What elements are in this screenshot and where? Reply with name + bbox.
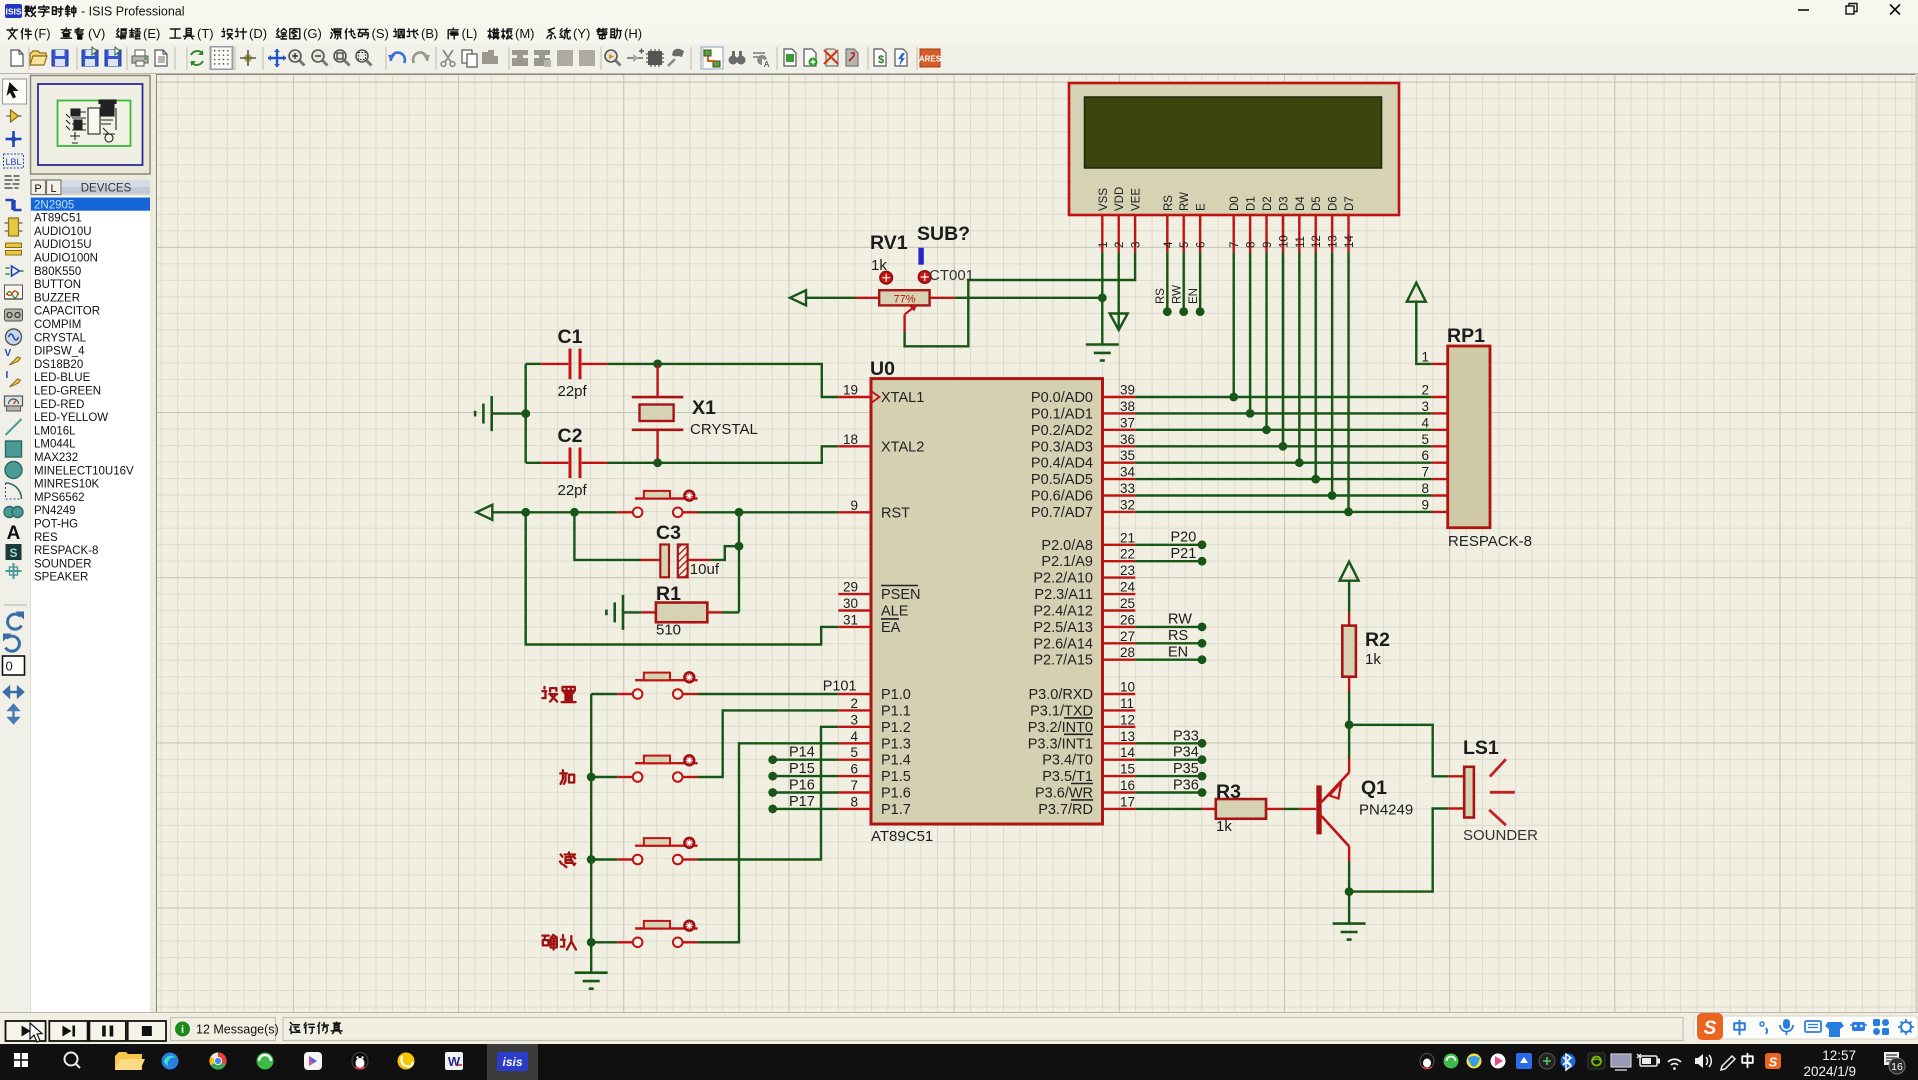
- svg-text:1: 1: [1098, 242, 1110, 248]
- wire VSS (LCD pin1) down to ground: [1101, 252, 1103, 344]
- svg-text:24: 24: [1120, 580, 1136, 595]
- svg-text:2: 2: [1114, 242, 1126, 248]
- svg-text:6: 6: [850, 762, 858, 777]
- junction ground to rail: [521, 409, 530, 418]
- svg-text:31: 31: [843, 612, 858, 627]
- svg-text:D2: D2: [1262, 196, 1274, 211]
- push button ADD (加): [633, 755, 698, 782]
- wire net P34 (right): [1135, 755, 1206, 764]
- wire net P15 to U0: [768, 772, 838, 781]
- svg-text:22: 22: [1120, 547, 1135, 562]
- svg-text:10uf: 10uf: [690, 561, 720, 578]
- svg-text:16: 16: [1891, 1061, 1903, 1073]
- svg-text:P3.6/WR: P3.6/WR: [1035, 786, 1093, 802]
- svg-text:17: 17: [1120, 794, 1135, 809]
- net label RS: [1168, 628, 1188, 644]
- junction D0/P0.0: [1229, 393, 1238, 402]
- svg-text:P35: P35: [1173, 761, 1199, 777]
- svg-text:CRYSTAL: CRYSTAL: [690, 421, 758, 438]
- label C3 value 10uf: [690, 561, 720, 578]
- svg-text:29: 29: [843, 580, 858, 595]
- svg-text:10: 10: [1278, 235, 1290, 248]
- junction D7/P0.7: [1344, 508, 1353, 517]
- push button MINUS (减): [633, 837, 698, 864]
- svg-text:22pf: 22pf: [558, 482, 588, 499]
- svg-text:RS: RS: [1155, 288, 1167, 304]
- junction RST rail / EA rail: [521, 508, 530, 517]
- wire VDD (LCD pin2) down to power terminal: [1117, 252, 1119, 328]
- resistor pack RP1 (RESPACK-8): [1421, 346, 1490, 528]
- wire U0 P3.7 to R3: [1135, 808, 1202, 810]
- wire P0.1 bus (U0 pin38 to RP1 pin3): [1135, 412, 1431, 414]
- net label P35 (right): [1173, 761, 1199, 777]
- wire P0.0 bus (U0 pin39 to RP1 pin2): [1135, 396, 1431, 398]
- svg-text:P1.6: P1.6: [881, 786, 911, 802]
- junction D1/P0.1: [1246, 409, 1255, 418]
- svg-text:RS: RS: [1168, 628, 1188, 644]
- svg-text:4: 4: [1163, 241, 1175, 248]
- junction D5/P0.5: [1311, 475, 1320, 484]
- svg-text:P2.4/A12: P2.4/A12: [1033, 604, 1093, 620]
- svg-text:C1: C1: [558, 326, 583, 348]
- svg-text:P34: P34: [1173, 745, 1199, 761]
- wire EA rail (RST rail to U0 EA pin31): [526, 512, 839, 644]
- wire D3 (LCD pin10) down to P0.3 net: [1282, 252, 1284, 446]
- wire D1 (LCD pin8) down to P0.1 net: [1249, 252, 1251, 413]
- net label P101: [823, 679, 857, 695]
- wire C1-C2 left rail: [525, 364, 527, 463]
- resistor R2: [1342, 581, 1356, 725]
- junction D6/P0.6: [1328, 491, 1337, 500]
- svg-text:P1.3: P1.3: [881, 736, 911, 752]
- svg-text:77%: 77%: [893, 294, 915, 306]
- svg-text:P0.3/AD3: P0.3/AD3: [1031, 439, 1093, 455]
- wire minus-button row to P1.2: [591, 727, 838, 860]
- svg-text:P3.0/RXD: P3.0/RXD: [1029, 687, 1093, 703]
- svg-text:EA: EA: [881, 620, 901, 636]
- svg-text:RP1: RP1: [1447, 325, 1485, 347]
- reset button: [617, 490, 697, 517]
- svg-text:XTAL1: XTAL1: [881, 390, 924, 406]
- wire C3 branch down: [574, 512, 640, 560]
- svg-text:D6: D6: [1328, 196, 1340, 211]
- wire C1 left to junction rail: [526, 363, 542, 365]
- svg-text:28: 28: [1120, 645, 1135, 660]
- svg-text:5: 5: [850, 745, 858, 760]
- svg-text:P2.5/A13: P2.5/A13: [1033, 620, 1093, 636]
- wire power to RP1 pin1: [1416, 302, 1431, 364]
- label Q1 value PN4249: [1359, 802, 1413, 819]
- svg-text:10: 10: [1120, 680, 1135, 695]
- wire vertical RST-R1: [738, 512, 740, 612]
- wire R3 to Q1 base: [1283, 808, 1316, 810]
- svg-text:EN: EN: [1188, 288, 1200, 304]
- svg-text:E: E: [1196, 203, 1208, 211]
- svg-text:39: 39: [1120, 383, 1135, 398]
- svg-text:11: 11: [1295, 236, 1307, 248]
- junction Q1 top node: [1345, 720, 1354, 729]
- svg-text:8: 8: [1421, 481, 1429, 496]
- label RV1 value 1k: [871, 257, 887, 274]
- junction D2/P0.2: [1262, 425, 1271, 434]
- svg-text:D4: D4: [1295, 196, 1307, 211]
- svg-text:P2.1/A9: P2.1/A9: [1041, 554, 1093, 570]
- svg-text:16: 16: [1120, 778, 1135, 793]
- svg-text:P2.7/A15: P2.7/A15: [1033, 653, 1093, 669]
- label R3: [1216, 781, 1241, 803]
- net label RS (vertical): [1155, 288, 1167, 304]
- svg-text:P101: P101: [823, 679, 857, 695]
- wire Q1 top node to LS1 pin1: [1349, 725, 1448, 777]
- svg-text:4: 4: [1421, 415, 1429, 430]
- svg-text:12: 12: [1311, 235, 1323, 248]
- svg-text:8: 8: [850, 794, 858, 809]
- svg-text:3: 3: [1131, 242, 1143, 248]
- svg-text:D3: D3: [1278, 196, 1290, 211]
- svg-text:21: 21: [1120, 530, 1135, 545]
- power terminal (VDD, down arrow): [1110, 314, 1128, 331]
- net label EN (vertical): [1188, 288, 1200, 304]
- junction rail/minus row: [587, 855, 596, 864]
- junction rail/add row: [587, 773, 596, 782]
- svg-text:P1.1: P1.1: [881, 703, 911, 719]
- wire C2 right to U0 XTAL2 (pin18): [607, 446, 838, 463]
- svg-text:7: 7: [1421, 465, 1429, 480]
- svg-text:35: 35: [1120, 448, 1135, 463]
- junction rail/confirm row: [587, 938, 596, 947]
- wire C2 left to junction rail: [526, 462, 542, 464]
- svg-text:RST: RST: [881, 505, 910, 521]
- crystal X1: [632, 365, 684, 462]
- label 减 (minus): [560, 852, 575, 867]
- capacitor C1: [541, 349, 607, 380]
- wire P20 net: [1135, 540, 1206, 549]
- wire net P35 (right): [1135, 772, 1206, 781]
- wire C1 right to U0 XTAL1 (pin19): [607, 364, 838, 397]
- svg-text:37: 37: [1120, 415, 1135, 430]
- svg-text:22pf: 22pf: [558, 383, 588, 400]
- wire RS net (P2.6): [1135, 639, 1206, 648]
- label R1: [656, 583, 681, 605]
- svg-text:R2: R2: [1365, 629, 1390, 651]
- svg-text:P0.6/AD6: P0.6/AD6: [1031, 489, 1093, 505]
- wire add-button row to P1.1: [591, 710, 838, 777]
- svg-text:P1.0: P1.0: [881, 687, 911, 703]
- svg-text:PN4249: PN4249: [1359, 802, 1413, 819]
- svg-text:3: 3: [850, 712, 858, 727]
- net label RW: [1168, 612, 1192, 628]
- wire EN net (P2.7): [1135, 655, 1206, 664]
- net label RW (vertical): [1172, 285, 1184, 304]
- svg-text:S: S: [1769, 1055, 1778, 1070]
- svg-text:14: 14: [1120, 745, 1136, 760]
- wire reset button to U0 RST (pin9): [683, 511, 839, 513]
- junction D4/P0.4: [1295, 458, 1304, 467]
- svg-text:PSEN: PSEN: [881, 587, 921, 603]
- wire EN (LCD pin6) stub down: [1196, 252, 1205, 316]
- label C2 value 22pf: [558, 482, 588, 499]
- ground (R1 left): [606, 595, 623, 630]
- label C2: [558, 425, 583, 447]
- svg-text:9: 9: [850, 498, 858, 513]
- svg-text:P0.0/AD0: P0.0/AD0: [1031, 390, 1093, 406]
- svg-text:25: 25: [1120, 596, 1135, 611]
- label 加 (add): [560, 770, 574, 784]
- svg-text:510: 510: [656, 622, 681, 639]
- svg-text:1k: 1k: [1365, 651, 1381, 668]
- transistor Q1 (PNP): [1316, 759, 1349, 863]
- svg-text:S: S: [1704, 1018, 1717, 1039]
- label R1 value 510: [656, 622, 681, 639]
- svg-text:1: 1: [1421, 349, 1429, 364]
- net label P21: [1171, 546, 1197, 562]
- svg-text:6: 6: [1421, 448, 1429, 463]
- svg-text:32: 32: [1120, 497, 1135, 512]
- svg-text:Q1: Q1: [1361, 777, 1387, 799]
- label X1: [692, 397, 716, 419]
- wire P0.2 bus (U0 pin37 to RP1 pin4): [1135, 429, 1431, 431]
- svg-text:P3.5/T1: P3.5/T1: [1042, 769, 1093, 785]
- svg-text:P3.1/TXD: P3.1/TXD: [1030, 703, 1093, 719]
- svg-text:4: 4: [850, 729, 858, 744]
- wire RW (LCD pin5) stub down: [1179, 252, 1188, 316]
- capacitor C3 (electrolytic 10uf): [641, 545, 711, 578]
- junction C3/R1/RST vertical: [735, 542, 744, 551]
- wire D5 (LCD pin12) down to P0.5 net: [1314, 252, 1316, 479]
- junction X1 top: [653, 360, 662, 369]
- wire RW net (P2.5): [1135, 623, 1206, 632]
- wire ground to R1: [623, 611, 642, 613]
- svg-text:P21: P21: [1171, 546, 1197, 562]
- svg-text:34: 34: [1120, 465, 1136, 480]
- svg-text:D0: D0: [1229, 196, 1241, 211]
- label R2: [1365, 629, 1390, 651]
- wire confirm-button row to P1.3: [591, 743, 838, 942]
- wire RV1 left terminal to input terminal: [806, 297, 856, 299]
- label RP1 value RESPACK-8: [1448, 533, 1532, 550]
- wire P0.7 bus (U0 pin32 to RP1 pin9): [1135, 511, 1431, 513]
- svg-text:19: 19: [843, 383, 858, 398]
- ground (Q1): [1333, 924, 1366, 940]
- svg-text:P1.2: P1.2: [881, 720, 911, 736]
- svg-text:P0.4/AD4: P0.4/AD4: [1031, 456, 1093, 472]
- junction Q1 bottom node: [1345, 887, 1354, 896]
- wire P0.6 bus (U0 pin33 to RP1 pin8): [1135, 494, 1431, 496]
- wire P0.5 bus (U0 pin34 to RP1 pin7): [1135, 478, 1431, 480]
- svg-text:P3.4/T0: P3.4/T0: [1042, 753, 1093, 769]
- probe marker (blue): [918, 248, 923, 265]
- svg-text:2024/1/9: 2024/1/9: [1803, 1064, 1856, 1079]
- wire D0 (LCD pin7) down to P0.0 net: [1232, 252, 1234, 397]
- wire net P16 to U0: [768, 788, 838, 797]
- svg-text:9: 9: [1262, 242, 1274, 248]
- svg-text:isis: isis: [502, 1055, 522, 1069]
- junction VSS / RV1 right terminal: [1098, 293, 1107, 302]
- wire net P17 to U0: [768, 805, 838, 814]
- label X1 value CRYSTAL: [690, 421, 758, 438]
- net label EN: [1168, 644, 1188, 660]
- svg-text:P3.3/INT1: P3.3/INT1: [1028, 736, 1093, 752]
- net label P33 (right): [1173, 728, 1199, 744]
- svg-text:7: 7: [850, 778, 858, 793]
- wire D6 (LCD pin13) down to P0.6 net: [1331, 252, 1333, 495]
- svg-text:P1.5: P1.5: [881, 769, 911, 785]
- wire set-button row to P1.0: [591, 693, 838, 695]
- label R3 value 1k: [1216, 818, 1232, 835]
- svg-text:P0.7/AD7: P0.7/AD7: [1031, 505, 1093, 521]
- push button CONFIRM (确认): [633, 920, 698, 947]
- svg-text:38: 38: [1120, 399, 1135, 414]
- svg-text:2: 2: [1421, 383, 1429, 398]
- svg-text:i: i: [181, 1024, 184, 1036]
- svg-text:9: 9: [1421, 497, 1429, 512]
- power terminal (up arrow) at RP1 pin1: [1407, 283, 1426, 302]
- svg-text:RW: RW: [1172, 285, 1184, 304]
- svg-text:P14: P14: [789, 745, 815, 761]
- net label P15: [789, 761, 815, 777]
- svg-text:18: 18: [843, 432, 858, 447]
- svg-text:XTAL2: XTAL2: [881, 439, 924, 455]
- terminal (left arrow) at RV1: [790, 290, 806, 305]
- svg-text:7: 7: [1229, 242, 1241, 248]
- junction X1 bottom: [653, 458, 662, 467]
- svg-text:15: 15: [1120, 762, 1135, 777]
- svg-text:30: 30: [843, 596, 858, 611]
- svg-text:ALE: ALE: [881, 604, 909, 620]
- label 确认 (confirm): [542, 935, 576, 950]
- wire R2/Q1 emitter node: [1348, 725, 1350, 759]
- label CT001: [929, 267, 974, 284]
- svg-text:D1: D1: [1246, 196, 1258, 211]
- label C1: [558, 326, 583, 348]
- net label P17: [789, 794, 815, 810]
- svg-text:12: 12: [1120, 712, 1135, 727]
- label Q1: [1361, 777, 1387, 799]
- svg-text:P36: P36: [1173, 778, 1199, 794]
- wire P0.3 bus (U0 pin36 to RP1 pin5): [1135, 445, 1431, 447]
- svg-text:RW: RW: [1179, 192, 1191, 211]
- resistor R1: [642, 603, 739, 623]
- svg-text:P0.5/AD5: P0.5/AD5: [1031, 472, 1093, 488]
- svg-text:5: 5: [1421, 432, 1429, 447]
- junction RST / C3-R1 vertical: [735, 508, 744, 517]
- terminal (left arrow) at RST rail: [476, 505, 492, 520]
- svg-text:8: 8: [1246, 242, 1258, 248]
- svg-text:RESPACK-8: RESPACK-8: [1448, 533, 1532, 550]
- svg-text:RV1: RV1: [870, 232, 908, 254]
- svg-text:C3: C3: [656, 522, 681, 544]
- svg-text:P33: P33: [1173, 728, 1199, 744]
- svg-text:33: 33: [1120, 481, 1135, 496]
- svg-text:11: 11: [1120, 696, 1134, 711]
- svg-text:3: 3: [1421, 399, 1429, 414]
- svg-text:P2.3/A11: P2.3/A11: [1034, 587, 1093, 603]
- ground (crystal rail): [475, 396, 492, 431]
- svg-text:VSS: VSS: [1098, 188, 1110, 211]
- power terminal (up arrow) above R2: [1340, 562, 1359, 581]
- label 设置 (set): [542, 687, 575, 702]
- svg-text:C2: C2: [558, 425, 583, 447]
- resistor R3: [1202, 799, 1283, 819]
- svg-text:13: 13: [1328, 235, 1340, 248]
- label R2 value 1k: [1365, 651, 1381, 668]
- svg-text:P17: P17: [789, 794, 815, 810]
- svg-text:U0: U0: [870, 358, 895, 380]
- label U0 value AT89C51: [871, 828, 933, 845]
- net label P36 (right): [1173, 778, 1199, 794]
- svg-text:12 Message(s): 12 Message(s): [196, 1023, 279, 1037]
- wire Q1 bottom to ground node: [1348, 862, 1350, 924]
- svg-text:P15: P15: [789, 761, 815, 777]
- svg-text:5: 5: [1179, 242, 1191, 248]
- label C3: [656, 522, 681, 544]
- wire ground to rail: [492, 412, 526, 414]
- svg-text:13: 13: [1120, 729, 1135, 744]
- junction D3/P0.3: [1279, 442, 1288, 451]
- svg-text:P3.7/RD: P3.7/RD: [1038, 802, 1093, 818]
- wire P21 net: [1135, 557, 1206, 566]
- wire net P14 to U0: [768, 755, 838, 764]
- svg-text:SOUNDER: SOUNDER: [1463, 827, 1538, 844]
- svg-text:27: 27: [1120, 629, 1135, 644]
- svg-text:P1.4: P1.4: [881, 753, 911, 769]
- wire D2 (LCD pin9) down to P0.2 net: [1265, 252, 1267, 429]
- label U0: [870, 358, 895, 380]
- potentiometer RV1: [856, 271, 955, 332]
- svg-text:23: 23: [1120, 563, 1135, 578]
- svg-text:12:57: 12:57: [1822, 1048, 1856, 1063]
- wire Q1 bottom node to LS1 pin2: [1349, 809, 1448, 892]
- svg-text:RS: RS: [1163, 195, 1175, 211]
- ground (button rail): [575, 973, 608, 989]
- svg-text:14: 14: [1344, 235, 1356, 248]
- svg-text:VDD: VDD: [1114, 187, 1126, 211]
- svg-text:26: 26: [1120, 612, 1135, 627]
- svg-text:W: W: [448, 1054, 461, 1069]
- net label P16: [789, 778, 815, 794]
- svg-text:RW: RW: [1168, 612, 1192, 628]
- label RV1: [870, 232, 908, 254]
- wire RST row: [492, 511, 617, 513]
- svg-text:SUB?: SUB?: [917, 223, 970, 245]
- wire D7 (LCD pin14) down to P0.7 net: [1347, 252, 1349, 512]
- svg-text:R1: R1: [656, 583, 681, 605]
- net label P20: [1171, 530, 1197, 546]
- net label P34 (right): [1173, 745, 1199, 761]
- wire button rail vertical: [590, 694, 592, 973]
- svg-text:CT001: CT001: [929, 267, 974, 284]
- ground (VSS net): [1086, 345, 1119, 361]
- label RP1: [1447, 325, 1485, 347]
- label SUB?: [917, 223, 970, 245]
- svg-text:D7: D7: [1344, 196, 1356, 211]
- svg-text:LS1: LS1: [1463, 737, 1499, 759]
- svg-text:36: 36: [1120, 432, 1135, 447]
- svg-text:EN: EN: [1168, 644, 1188, 660]
- svg-text:2: 2: [850, 696, 858, 711]
- svg-text:1k: 1k: [1216, 818, 1232, 835]
- svg-text:6: 6: [1196, 242, 1208, 248]
- wire net P33 (right): [1135, 739, 1206, 748]
- wire VEE (LCD pin3) to RV1 wiper: [905, 252, 1136, 346]
- sounder LS1: [1448, 759, 1515, 825]
- wire RS (LCD pin4) stub down: [1163, 252, 1172, 316]
- svg-text:D5: D5: [1311, 196, 1323, 211]
- svg-text:P1.7: P1.7: [881, 802, 911, 818]
- wire P0.4 bus (U0 pin35 to RP1 pin6): [1135, 462, 1431, 464]
- svg-text:P0.1/AD1: P0.1/AD1: [1031, 406, 1093, 422]
- push button SET (设置): [633, 672, 698, 699]
